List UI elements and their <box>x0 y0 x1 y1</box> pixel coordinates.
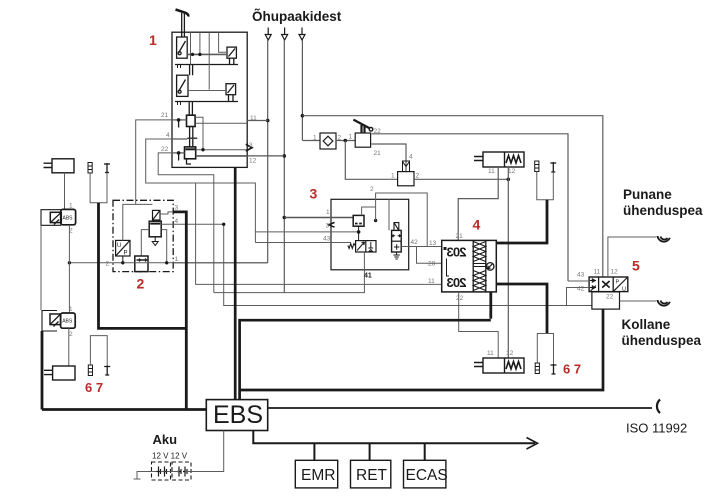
svg-text:ECAS: ECAS <box>406 467 448 484</box>
valve5 X cell <box>602 281 609 288</box>
connector 6 top right <box>535 161 539 172</box>
port 43 junction dot <box>357 230 361 234</box>
rail 3 dot main line <box>301 114 305 118</box>
wire filter to hand valve <box>336 140 355 142</box>
SEC3 <box>68 120 592 306</box>
port 11 wire outside <box>247 120 268 122</box>
inlet valve loop wire <box>362 207 376 215</box>
hatch ticks lower bus <box>178 102 181 106</box>
main supply line to right <box>302 116 602 277</box>
lower spring brake chamber body <box>483 358 524 373</box>
valve spring left <box>348 244 356 249</box>
svg-text:3: 3 <box>249 142 253 149</box>
thick bottom line to EBS <box>42 408 206 411</box>
port 1 supply wire <box>284 217 353 219</box>
EMR drop <box>313 443 315 460</box>
rail2 dot at circuit3 port1 <box>283 216 287 220</box>
dot at parking branch <box>344 139 348 143</box>
port 21 wire <box>172 119 187 121</box>
connector 7 left top <box>104 163 110 173</box>
upper spring brake chamber body <box>483 152 524 167</box>
SEC7 <box>41 159 687 488</box>
hand valve port 21 wire <box>372 144 407 172</box>
svg-text:11: 11 <box>488 168 495 175</box>
thick wire modulator right lower <box>496 284 547 334</box>
pilot valve 22 body <box>185 147 196 159</box>
port 3 wire <box>196 149 247 151</box>
unit2 valve lower stem <box>152 237 158 246</box>
svg-text:22: 22 <box>606 294 614 301</box>
svg-text:11: 11 <box>594 269 601 276</box>
svg-text:12: 12 <box>508 168 516 175</box>
wire 42 from valve5 <box>567 288 590 306</box>
svg-text:2: 2 <box>106 261 110 268</box>
air supply arrow 1 <box>265 28 271 41</box>
wire cylinder to ABS1 <box>64 173 66 210</box>
drop wire d <box>219 32 227 52</box>
electric sensor square B <box>226 84 236 95</box>
U/P converter box <box>116 240 130 256</box>
internal bus line upper <box>175 64 238 66</box>
wire 2 chain <box>376 193 428 247</box>
thick wheel line left <box>41 331 44 410</box>
svg-text:1: 1 <box>175 256 179 263</box>
hand valve lever knob <box>369 128 373 132</box>
sensor B diagonal <box>228 85 235 93</box>
upper chamber divider <box>504 152 506 167</box>
ECAS drop <box>424 443 426 460</box>
U/P diagonal <box>116 240 130 256</box>
air supply arrow 2 <box>282 28 288 41</box>
svg-text:ühenduspea: ühenduspea <box>623 203 703 218</box>
ISO connector symbol <box>657 400 660 414</box>
port 4 chain down to coupling valve line <box>224 224 592 305</box>
relay valve divider <box>392 240 402 242</box>
internal bus line lower <box>175 101 238 103</box>
valve5 lower box <box>592 292 620 309</box>
hand brake valve body <box>355 133 370 147</box>
ABS sensor 1 exciter ring <box>41 210 61 226</box>
battery cell 1 dashed <box>152 462 171 480</box>
port 22 wire left chain to retarder line <box>158 153 214 293</box>
hatch ticks upper bus <box>178 65 181 69</box>
loop dot <box>374 219 377 222</box>
sensor circle arrow <box>488 264 493 269</box>
ABS sensor 2 exciter ring <box>42 311 57 332</box>
svg-text:ISO 11992: ISO 11992 <box>626 421 687 436</box>
connector 6 left top <box>88 163 92 174</box>
thick line EBS up right <box>240 320 491 399</box>
modulator bracket <box>447 259 450 277</box>
solenoid pilot square unit2 <box>153 210 161 220</box>
RET drop <box>369 443 371 460</box>
svg-text:2: 2 <box>137 276 145 292</box>
branch down to valve 4 <box>345 141 397 180</box>
svg-text:4: 4 <box>409 154 413 161</box>
CAN bus line <box>253 431 535 444</box>
air supply arrow 3 <box>299 28 305 41</box>
wire ABS1 to ABS2 <box>68 225 70 313</box>
electric sensor square A <box>227 47 236 58</box>
bottom accelerator box <box>135 256 148 272</box>
svg-text:21: 21 <box>456 233 464 240</box>
svg-text:21: 21 <box>161 112 169 119</box>
svg-text:41: 41 <box>364 273 372 280</box>
unit2 supply dots <box>121 261 124 264</box>
svg-text:P: P <box>616 280 620 286</box>
svg-text:203: 203 <box>447 245 467 260</box>
modulator mid arrows <box>473 264 486 267</box>
port 22 dot <box>177 151 181 155</box>
valve5 P/U cell diagonal <box>613 277 628 292</box>
svg-text:2: 2 <box>69 331 73 338</box>
supply rail 1 to circuit 2 wire <box>173 262 267 264</box>
svg-text:42: 42 <box>411 239 419 246</box>
svg-text:1: 1 <box>149 32 157 48</box>
port 12 wire internal <box>196 155 248 157</box>
chamber port 12 long wire down <box>507 167 509 358</box>
chamber port 11 wire to modulator 21 <box>458 167 498 240</box>
Punane coupling head <box>658 236 670 242</box>
svg-text:U: U <box>622 287 626 293</box>
svg-text:42: 42 <box>577 286 585 293</box>
connector 6 left bottom <box>88 365 92 376</box>
battery cell 2 dashed <box>172 462 191 480</box>
relay valve body <box>392 230 402 252</box>
wire valve right to port1 drop <box>161 230 167 263</box>
valve unit 2 dash-dot enclosure <box>113 200 173 271</box>
valve B stem <box>190 65 193 76</box>
solenoid diagonal <box>153 210 161 220</box>
branch to modulator port 11 <box>196 183 442 284</box>
lower chamber spring <box>506 362 521 370</box>
hand valve port 22 wire long <box>372 134 569 281</box>
SEC4 <box>255 186 442 286</box>
thick wire to modulator top right <box>496 200 547 243</box>
junction dots on valve A wire <box>191 53 194 56</box>
valve B output wire to sensor B <box>188 90 226 92</box>
lower chamber pushrod <box>474 363 483 367</box>
port 3 wire inside <box>160 212 173 214</box>
upper chamber pushrod <box>474 157 483 161</box>
supply rail 2 vertical <box>283 40 285 293</box>
svg-text:4: 4 <box>473 217 481 233</box>
EBS modulator 4 body <box>442 240 497 292</box>
valve section B <box>177 75 188 96</box>
drop wire a <box>190 32 192 64</box>
rail2 lower end joins <box>283 292 285 294</box>
thick yellow-line EBS to valve5 <box>240 309 603 390</box>
CAN bus arrowhead <box>527 438 538 450</box>
valve3 stem down <box>358 226 360 241</box>
supply rail 1 vertical <box>267 40 269 263</box>
connector 7 top right <box>550 162 556 172</box>
port 3 chevron <box>246 144 252 151</box>
foot brake valve unit 1: outer box <box>172 32 247 167</box>
valve4 output wire <box>414 178 508 180</box>
accelerator box arrows <box>137 259 146 261</box>
svg-text:6 7: 6 7 <box>563 362 581 377</box>
relay emergency valve 3 box <box>331 199 409 269</box>
wire valveA to port3 <box>195 117 203 150</box>
wire 42 out <box>401 246 442 248</box>
T bar between valves <box>187 137 197 139</box>
ABS1 sensor square <box>50 212 61 222</box>
svg-text:5: 5 <box>632 258 640 274</box>
rail1 junction dot at port11 line <box>266 119 270 123</box>
svg-text:6 7: 6 7 <box>85 380 103 395</box>
svg-text:RET: RET <box>356 467 388 484</box>
relay valve exhaust spring <box>393 252 399 259</box>
port 4 wire internal <box>172 138 187 140</box>
wire 41 down <box>363 252 365 270</box>
pilot valve 21 body <box>187 115 196 126</box>
lower cylinder pushrod <box>44 370 53 374</box>
EBS ECU box <box>206 400 267 431</box>
wire 42 to 28 jog <box>417 247 442 264</box>
port 3 chevron left <box>329 222 335 227</box>
svg-text:4: 4 <box>175 218 179 225</box>
svg-text:P: P <box>124 251 128 257</box>
brake pedal <box>176 10 189 17</box>
svg-text:U: U <box>117 243 121 249</box>
port 3 junction dot <box>201 148 204 151</box>
thick supply to modulator bottom <box>489 292 492 319</box>
svg-text:1: 1 <box>313 135 317 142</box>
ABS1 sensor diagonals <box>50 212 61 224</box>
wire 43 into valve5 <box>568 280 589 282</box>
connector 7 left bottom <box>104 366 110 376</box>
trailer control valve 5 body <box>589 277 628 292</box>
wire valve to bottom box <box>141 230 149 256</box>
port 21 wire to unit2 solenoid <box>136 120 172 204</box>
svg-text:12 V 12 V: 12 V 12 V <box>152 452 188 461</box>
svg-text:22: 22 <box>456 295 464 302</box>
wire to Kollane head <box>620 300 657 302</box>
unit3 inlet valve square <box>353 215 364 226</box>
U/P bottom leg <box>122 256 124 263</box>
svg-text:43: 43 <box>323 236 331 243</box>
directional valve right symbols <box>368 242 373 252</box>
port 22 wire <box>172 152 185 154</box>
thick chassis line from unit1 <box>234 167 237 399</box>
svg-text:1: 1 <box>391 173 395 180</box>
modulator inner border left <box>472 240 474 292</box>
valve 22 inner mark <box>186 148 196 150</box>
battery plates 1 <box>157 467 168 477</box>
SEC5 <box>442 233 581 377</box>
port 43 wire <box>255 231 359 233</box>
inlet valve inner marks <box>355 223 362 225</box>
upper cylinder pushrod <box>44 163 53 167</box>
svg-text:2: 2 <box>370 186 374 193</box>
svg-text:EMR: EMR <box>301 467 335 484</box>
connector 7 bottom right <box>551 364 557 374</box>
dot port4 chain <box>222 223 225 226</box>
directional valve left arrow <box>357 242 365 251</box>
svg-text:1: 1 <box>349 134 353 141</box>
modulator valve hatch top <box>473 242 486 262</box>
modulator sensor circle <box>486 263 494 271</box>
lower chamber divider <box>504 358 506 373</box>
port 4 wire unit2 <box>161 223 224 225</box>
port 12 wire outside <box>247 155 284 157</box>
SEC2 <box>458 152 556 358</box>
svg-text:43: 43 <box>577 272 585 279</box>
svg-text:12: 12 <box>611 269 619 276</box>
svg-text:3: 3 <box>310 186 318 202</box>
svg-text:4: 4 <box>166 132 170 139</box>
svg-text:12: 12 <box>249 158 257 165</box>
quick release valve body <box>398 172 414 186</box>
pedal stem <box>182 13 185 37</box>
pilot valve 21 stem <box>189 102 192 116</box>
svg-text:Kollane: Kollane <box>622 317 671 332</box>
port 21 pin tick <box>178 120 180 128</box>
sensor A legs <box>230 58 234 64</box>
svg-text:3: 3 <box>175 205 179 212</box>
drop wire c <box>208 32 210 89</box>
port 21 dot <box>177 118 181 122</box>
pilot valve 21 inner stem lower <box>190 127 193 138</box>
SEC6 <box>567 187 704 348</box>
ECAS box <box>404 460 446 488</box>
unit2 valve inner mark <box>150 223 160 225</box>
svg-text:2: 2 <box>416 173 420 180</box>
ISO 11992 line <box>268 407 652 409</box>
valve section A <box>177 37 188 58</box>
relay valve wire from top <box>388 199 390 230</box>
svg-text:28: 28 <box>428 261 436 268</box>
wires 6 7 join bottom <box>537 334 553 365</box>
EMR box <box>295 460 337 488</box>
retarder wire 41 horizontal <box>214 270 365 293</box>
battery wire to EBS <box>191 431 224 472</box>
svg-text:3: 3 <box>326 223 330 230</box>
unit2 valve body <box>149 221 161 237</box>
valve5 dividers <box>599 277 614 292</box>
battery plates 2 <box>177 467 188 477</box>
directional valve divider <box>365 241 367 252</box>
quick release valve 4 top symbol <box>403 161 410 172</box>
valve A detail <box>179 41 186 53</box>
modulator bullet <box>444 247 447 250</box>
stem to valve 22 <box>190 139 193 147</box>
svg-text:Õhupaakidest: Õhupaakidest <box>252 9 342 24</box>
filter diamond <box>323 136 333 146</box>
filter unit <box>320 133 336 149</box>
valve 22 lower hook <box>187 159 192 164</box>
svg-text:203: 203 <box>447 275 467 290</box>
wire rail3 to filter <box>302 140 320 142</box>
sensor B legs <box>229 95 234 102</box>
pilot wire into valve3 <box>255 242 350 244</box>
svg-text:12: 12 <box>506 350 514 357</box>
svg-text:Aku: Aku <box>153 432 178 447</box>
wire port 12 from Punane <box>608 237 657 277</box>
valve B detail <box>179 80 186 92</box>
sensor A diagonal <box>229 49 236 57</box>
svg-text:11: 11 <box>428 278 435 285</box>
U/P top wire <box>123 204 153 240</box>
svg-text:EBS: EBS <box>213 401 263 429</box>
wire ABS2 to lower cylinder <box>68 328 70 366</box>
port 4 wire left chain <box>146 139 256 243</box>
connector 6 bottom right <box>535 363 539 374</box>
relay valve arrows <box>392 235 400 238</box>
svg-text:ABS: ABS <box>63 215 74 221</box>
thick supply from unit2 port3 <box>173 212 186 410</box>
modulator inner border right <box>485 240 487 292</box>
RET box <box>351 460 391 488</box>
port 22 pin tick <box>178 153 180 161</box>
svg-text:1: 1 <box>69 203 73 210</box>
SEC1 <box>173 9 602 293</box>
rail2 dot at port12 line <box>283 154 287 158</box>
directional valve body <box>356 241 376 252</box>
modulator port 22 wire to lower chamber <box>459 292 499 358</box>
lower brake cylinder <box>53 366 75 380</box>
wires 6 7 join left bottom <box>90 336 107 366</box>
battery wire left ground <box>134 472 192 480</box>
wires 6 7 join left <box>90 173 107 203</box>
drop wire b <box>199 32 201 54</box>
hand valve lever <box>353 120 369 133</box>
dot at chamber 12 drop <box>507 178 511 182</box>
supply rail 3 vertical <box>301 40 303 141</box>
svg-text:1: 1 <box>326 209 330 216</box>
thick wire left sensors down <box>99 203 187 329</box>
Kollane coupling head <box>658 300 670 306</box>
ABS2 sensor square <box>50 314 61 325</box>
svg-text:ABS: ABS <box>62 319 73 325</box>
svg-text:11: 11 <box>487 350 494 357</box>
ABS1 box <box>61 209 76 224</box>
upper brake cylinder <box>52 159 74 173</box>
port 11 wire internal <box>195 122 247 124</box>
valve5 shuttle arrows <box>590 279 596 291</box>
wire between exciters <box>40 225 42 310</box>
svg-text:22: 22 <box>161 146 169 153</box>
svg-text:Punane: Punane <box>623 187 672 202</box>
svg-text:13: 13 <box>429 240 437 247</box>
ABS2 sensor diagonals <box>50 314 61 327</box>
modulator valve hatch bottom <box>473 271 486 291</box>
svg-text:ühenduspea: ühenduspea <box>622 333 702 348</box>
svg-text:1: 1 <box>69 306 73 313</box>
upper chamber spring <box>506 156 521 164</box>
wires 6 and 7 join top <box>537 172 554 200</box>
relay valve pilot box <box>394 223 399 231</box>
ABS2 box <box>61 313 76 328</box>
unit2 supply wire from rail1 <box>69 262 267 264</box>
svg-text:21: 21 <box>374 150 382 157</box>
valve A output wire to sensor A <box>187 53 227 55</box>
